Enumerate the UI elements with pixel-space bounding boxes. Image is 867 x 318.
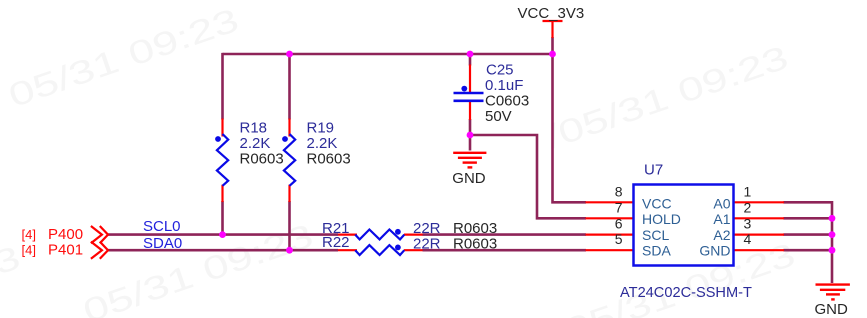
svg-text:R22: R22 <box>322 234 350 251</box>
svg-text:P400: P400 <box>48 226 83 243</box>
svg-text:5: 5 <box>615 231 623 247</box>
svg-text:8: 8 <box>615 183 623 199</box>
svg-text:7: 7 <box>615 199 623 215</box>
svg-text:HOLD: HOLD <box>642 211 681 227</box>
svg-text:[4]: [4] <box>22 227 36 242</box>
svg-text:R0603: R0603 <box>453 236 497 253</box>
svg-text:2.2K: 2.2K <box>307 135 338 152</box>
svg-text:0.1uF: 0.1uF <box>485 77 523 94</box>
svg-text:GND: GND <box>815 301 849 318</box>
svg-text:VCC_3V3: VCC_3V3 <box>518 5 585 22</box>
svg-text:VCC: VCC <box>642 196 672 212</box>
svg-text:GND: GND <box>452 170 486 187</box>
svg-text:R0603: R0603 <box>307 150 351 167</box>
svg-text:U7: U7 <box>644 162 663 179</box>
svg-text:R0603: R0603 <box>240 150 284 167</box>
svg-text:P401: P401 <box>48 242 83 259</box>
svg-text:4: 4 <box>744 231 752 247</box>
svg-text:A2: A2 <box>713 227 730 243</box>
svg-text:SDA0: SDA0 <box>143 235 182 252</box>
svg-text:22R: 22R <box>413 236 441 253</box>
svg-text:SCL0: SCL0 <box>143 218 181 235</box>
svg-text:1: 1 <box>744 183 752 199</box>
svg-text:2: 2 <box>744 199 752 215</box>
svg-text:AT24C02C-SSHM-T: AT24C02C-SSHM-T <box>620 285 752 301</box>
svg-text:A0: A0 <box>713 196 730 212</box>
svg-text:SDA: SDA <box>642 242 671 258</box>
svg-text:2.2K: 2.2K <box>240 135 271 152</box>
svg-text:6: 6 <box>615 216 623 232</box>
svg-text:SCL: SCL <box>642 227 669 243</box>
svg-text:[4]: [4] <box>22 243 36 258</box>
svg-text:3: 3 <box>744 216 752 232</box>
svg-text:50V: 50V <box>485 108 512 125</box>
svg-text:A1: A1 <box>713 211 730 227</box>
svg-text:GND: GND <box>699 242 730 258</box>
